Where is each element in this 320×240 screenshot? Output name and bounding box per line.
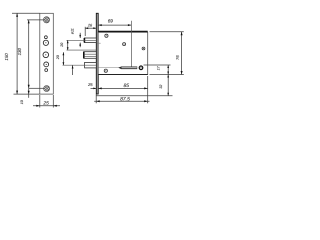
svg-text:20: 20 (56, 55, 60, 60)
svg-text:69: 69 (108, 18, 114, 23)
extension lines for 25 (39, 95, 41, 108)
keyhole slot (118, 67, 137, 70)
interior pin A (105, 34, 108, 37)
svg-text:17: 17 (156, 65, 160, 70)
interior pin B (123, 43, 126, 46)
hole with center (44, 62, 49, 67)
small hole (45, 69, 48, 72)
extension line plate top (12, 12, 40, 14)
hole with center (43, 52, 49, 58)
faceplate side view (96, 13, 98, 94)
dimension 76 (181, 32, 183, 75)
dimension 25 (33, 105, 60, 107)
screw hole bottom (hatched) (44, 86, 50, 92)
svg-text:26: 26 (87, 23, 93, 27)
svg-text:10: 10 (20, 100, 24, 104)
dimension 20 lower (63, 52, 65, 65)
extension line body bottom right (150, 74, 184, 76)
extension line to top screw hole (27, 19, 44, 21)
body bottom edge (98, 74, 148, 76)
center line keyhole vertical (130, 21, 132, 67)
key guide protrusion (63, 62, 97, 68)
svg-text:150: 150 (4, 53, 9, 61)
svg-text:85: 85 (124, 83, 130, 89)
dead bolt (84, 52, 97, 59)
body top edge thick (98, 31, 148, 33)
dimension 20 upper (67, 40, 97, 50)
extension line to bottom screw hole (29, 87, 44, 89)
extension line keyhole right (144, 64, 171, 66)
keyway line interior (99, 66, 123, 68)
faceplate (front view) (40, 13, 54, 94)
svg-text:25: 25 (42, 101, 49, 107)
svg-text:76: 76 (175, 55, 180, 60)
svg-text:25: 25 (87, 82, 93, 87)
interior pin C (142, 47, 145, 50)
extension line plate left face down (95, 95, 97, 104)
small arrow under key line (72, 65, 74, 75)
latch bolt (67, 38, 97, 43)
extension line body top right (150, 31, 184, 33)
keyhole circle (139, 66, 143, 70)
hole with center (43, 40, 48, 45)
arrow 25 (plate thickness) (91, 88, 97, 90)
svg-text:20: 20 (60, 43, 64, 48)
dimension 17 (167, 65, 169, 75)
interior pin D (104, 69, 107, 72)
dimension 150 line (16, 13, 18, 94)
svg-text:ø11: ø11 (71, 28, 75, 34)
dimension 69 (98, 24, 131, 26)
svg-text:32: 32 (159, 85, 163, 89)
dimension 130 line (28, 20, 30, 88)
extension line body right down (147, 76, 149, 103)
dimension 85 (98, 87, 148, 89)
dimension 87.5 (94, 100, 149, 102)
svg-text:130: 130 (17, 48, 22, 56)
lock body (side view) (98, 32, 148, 74)
dimension 10 tail below (28, 88, 30, 98)
diameter arrows for latch (79, 33, 81, 47)
small hole (45, 36, 48, 39)
screw hole top (hatched) (43, 17, 49, 23)
dimension 32 (167, 75, 169, 96)
svg-text:87.5: 87.5 (120, 96, 130, 102)
latch slot tick on body edge (97, 42, 101, 44)
extension line plate bottom (14, 93, 40, 95)
extension line plate bottom right (96, 95, 172, 97)
dimension 26 (85, 27, 96, 36)
